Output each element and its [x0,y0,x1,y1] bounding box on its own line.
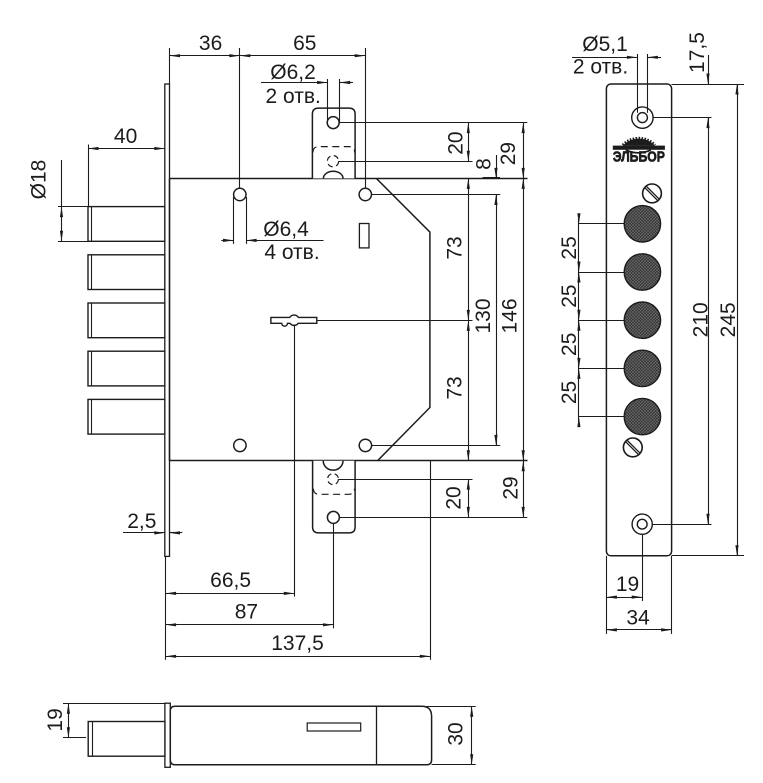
dimension 87 [166,624,334,626]
svg-text:ЭЛЬБОР: ЭЛЬБОР [613,148,665,165]
keyhole axis line to 73/130 dimensions [317,320,473,322]
dead bolt 4 (front view) [88,351,165,386]
lock body (bottom view) [170,706,431,765]
dimension 73 (bottom) [468,320,470,460]
chain arrows at circle 2 [577,272,580,283]
dead bolt 2 (front view) [88,255,165,290]
dimension 66,5 [166,593,295,595]
extension line bolt1 left edge up [88,145,90,207]
svg-text:4 отв.: 4 отв. [264,241,319,264]
lock body top edge (extended right as extension line) [170,178,528,180]
bolt axis extension (bottom view) [63,737,86,739]
bottom tab hidden hole (dashed circle) [328,474,339,485]
svg-text:73: 73 [444,236,467,259]
line from top dashed hole to 20 dimension [339,161,473,163]
bolt hole circle 4 (hatched) [624,350,660,386]
dimension 2,5 (face plate thickness) [123,532,165,534]
body hole top-left (6.4 mm) [234,188,246,200]
bottom tab screw hole [327,511,339,523]
extension lines hole edges 6.4 [233,197,235,244]
body bottom edge extension (bottom view) [432,764,476,766]
dimension 34 [606,629,671,631]
bolt hole circle 1 (hatched) [624,206,660,242]
line from bottom hole to 210 [652,524,711,526]
svg-text:245: 245 [717,302,740,337]
extension line to top-right hole [365,48,367,188]
dimension chain 25 line [578,219,580,422]
bottom tab hidden slot (dashed) [313,489,354,495]
dimension 19 (face plate) [606,597,642,599]
extension lines bolt1 edges left [58,206,88,208]
line from bolt circle 3 to 25 chain [579,320,643,322]
svg-text:66,5: 66,5 [210,569,251,592]
svg-text:130: 130 [472,298,495,333]
svg-text:65: 65 [293,32,316,55]
svg-text:20: 20 [443,486,466,509]
body top edge extension (bottom view) [424,706,476,708]
dimension 65 [240,55,365,57]
dimension 36 [170,55,240,57]
top tab hidden slot (dashed) [313,147,355,153]
keyhole (lever key profile) [271,315,317,326]
svg-text:36: 36 [199,32,222,55]
chain arrows at circle 5 [577,417,580,428]
lock body bottom edge (extended right as extension line) [170,460,528,462]
dead bolt 3 (front view) [88,303,165,338]
svg-text:8: 8 [473,158,496,170]
dimension line Ø5,1 [572,57,637,59]
svg-text:2 отв.: 2 отв. [573,56,628,79]
svg-text:25: 25 [558,333,581,356]
face plate (side view) outline [606,84,671,556]
svg-text:73: 73 [444,376,467,399]
svg-text:25: 25 [558,236,581,259]
lock body left edge [169,178,171,460]
svg-text:210: 210 [689,302,712,337]
line from bottom tab hole to 29 dimension [339,517,527,519]
svg-text:17,5: 17,5 [686,32,709,73]
body hole top-right (6.4 mm) [359,188,371,200]
dimension 8 (outside arrows) [496,155,498,178]
chain arrows at circle 1 [577,213,580,224]
svg-text:25: 25 [558,284,581,307]
dimension 17,5 (outside arrows) [708,55,710,84]
body hole bottom-left (6.4 mm) [234,439,246,451]
dimension 30 [471,706,473,765]
lock face plate (front view, 2.5 mm strip) [165,84,170,556]
svg-text:Ø5,1: Ø5,1 [582,33,628,56]
svg-text:40: 40 [114,125,137,148]
svg-text:Ø6,4: Ø6,4 [263,218,309,241]
face plate top screw hole (5.1 mm) [632,107,653,128]
dead bolt 1 (front view) [88,207,165,242]
line from bottom dashed hole to 20 dimension [338,479,472,481]
body hole bottom-right (6.4 mm) [359,439,371,451]
line from top-right hole to 130 dimension [372,194,501,196]
dimension 245 [737,84,739,556]
dimension 137,5 [166,656,431,658]
extension line face plate right edge down [671,556,673,634]
svg-text:25: 25 [558,381,581,404]
extension line from bottom tab hole down [333,523,335,628]
svg-text:19: 19 [44,708,67,731]
top tab lug arc [323,171,343,178]
top tab hidden hole (dashed circle) [327,156,338,167]
extension line from keyhole down [294,326,296,597]
lower screw head [623,438,642,457]
extension line face plate left edge down [606,556,608,634]
svg-text:146: 146 [499,298,522,333]
ELBOR logo [623,139,655,146]
extension lines hole edges 6.2 [327,79,329,120]
dimension 40 [88,148,165,150]
line from bottom-right hole to 130 dimension [372,445,501,447]
face plate bottom screw hole [632,514,652,534]
svg-text:2,5: 2,5 [127,510,156,533]
line from top hole to 17,5/210 [653,117,711,119]
svg-text:29: 29 [497,142,520,165]
face plate top edge extension (bottom view) [63,703,165,705]
chain arrows at circle 4 [577,368,580,379]
svg-text:Ø6,2: Ø6,2 [270,61,316,84]
svg-text:19: 19 [616,573,639,596]
face plate bottom edge extension [672,555,744,557]
dimension 146 line (through 29-29) [523,123,525,518]
bolt hole circle 5 (hatched) [624,398,660,434]
bottom tab lug arc [323,461,343,470]
extension line body left edge up [169,48,171,84]
face plate top edge extension [672,84,744,86]
upper screw head [643,184,662,203]
line from bolt circle 1 to 25 chain [579,223,643,225]
dimension Ø18 [61,160,63,241]
line from bolt circle 4 to 25 chain [579,368,643,370]
extension lines top hole edges [637,54,639,113]
dimension 20 (top) [468,123,470,162]
handle follower slot [359,224,369,248]
dimension 130 [496,195,498,446]
dimension line Ø6,2 [261,82,328,84]
extension line to hole 36/65 [239,48,241,188]
svg-text:34: 34 [626,607,650,630]
dimension 29 (bottom) [522,461,525,472]
chain arrows at circle 3 [577,320,580,331]
svg-text:30: 30 [445,722,468,745]
body divider line (bottom view) [376,706,378,765]
svg-text:Ø18: Ø18 [28,160,51,200]
extension line body right edge down [430,461,432,660]
extension line from bottom hole down [642,534,644,601]
dimension line Ø6,4 [221,240,233,242]
dead bolt 5 (front view) [88,399,165,434]
svg-text:87: 87 [235,601,258,624]
dead bolt (bottom view) [88,722,165,757]
line from bolt circle 5 to 25 chain [579,416,643,418]
line from top tab hole to 20/29 dimensions [339,122,527,124]
dimension 73 (top) [468,178,470,320]
dimension 19 (bottom view) [68,703,70,738]
dimension 29 (top) [522,123,525,134]
face plate (bottom view strip) [165,703,170,767]
lock body right edge with chamfered corners [376,178,430,460]
extension line face plate left down [165,556,167,659]
bolt hole circle 3 (hatched) [624,302,660,338]
svg-text:2 отв.: 2 отв. [266,85,321,108]
svg-text:20: 20 [444,131,467,154]
bolt hole circle 2 (hatched) [624,254,660,290]
top tab screw hole (6.2 mm) [327,117,339,129]
slot in body (bottom view) [307,723,361,731]
dimension 210 [708,118,710,525]
svg-text:137,5: 137,5 [271,632,324,655]
top fixing tab outline [312,108,355,178]
dimension 20 (bottom) [468,479,470,517]
svg-text:29: 29 [500,476,523,499]
line from bolt circle 2 to 25 chain [579,272,643,274]
bottom fixing tab outline [313,461,356,533]
